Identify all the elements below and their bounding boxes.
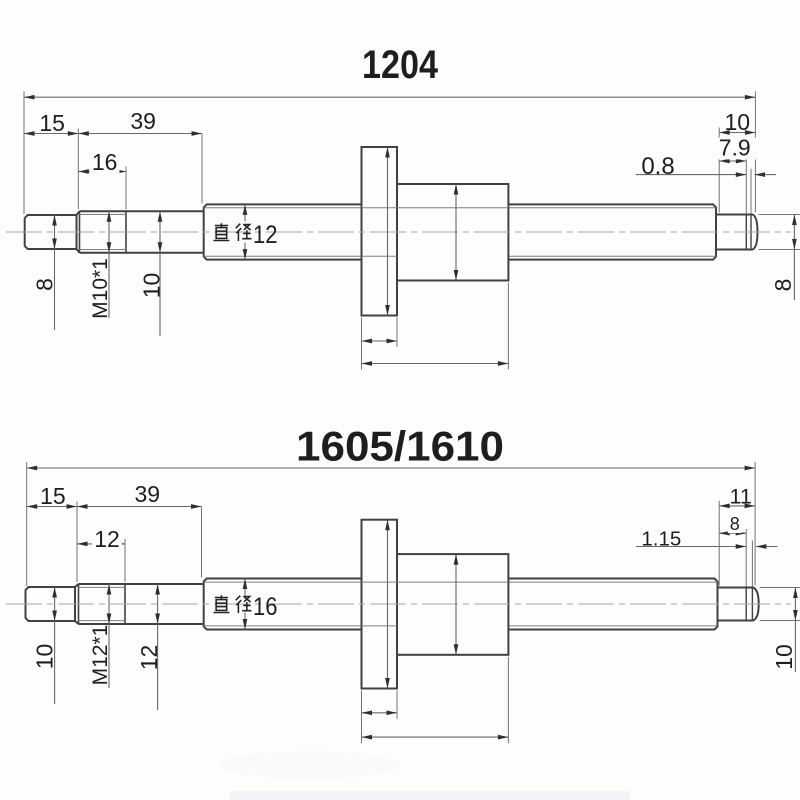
svg-text:12: 12 [94,526,120,552]
svg-text:10: 10 [139,273,165,299]
svg-text:16: 16 [253,593,278,621]
svg-text:M10*1: M10*1 [89,258,112,319]
svg-text:1605/1610: 1605/1610 [296,423,504,470]
svg-text:10: 10 [725,109,751,135]
svg-text:15: 15 [39,110,65,136]
svg-text:39: 39 [134,481,160,507]
svg-text:7.9: 7.9 [719,135,751,161]
svg-text:16: 16 [92,149,118,175]
svg-text:39: 39 [130,108,156,134]
svg-text:15: 15 [40,483,66,509]
svg-text:12: 12 [136,645,162,671]
svg-text:11: 11 [729,484,751,508]
svg-text:10: 10 [771,644,797,670]
svg-text:12: 12 [253,221,278,249]
svg-text:8: 8 [770,279,796,292]
svg-text:0.8: 0.8 [641,153,674,180]
svg-text:8: 8 [32,278,58,291]
svg-text:8: 8 [730,514,740,534]
svg-text:10: 10 [32,644,58,670]
svg-text:1.15: 1.15 [641,528,681,551]
svg-text:1204: 1204 [362,43,439,87]
svg-text:M12*1: M12*1 [89,625,112,686]
